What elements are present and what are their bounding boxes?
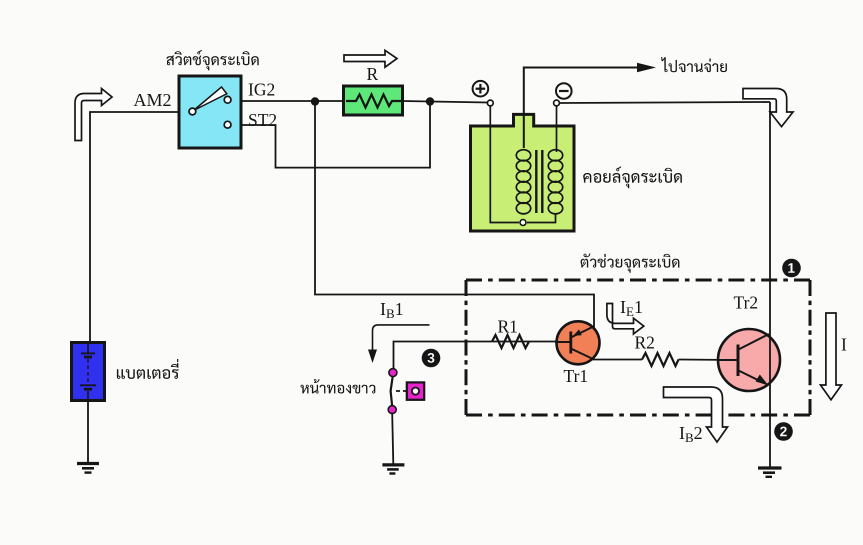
ignition coil body xyxy=(471,114,575,231)
svg-text:IG2: IG2 xyxy=(248,80,275,100)
flow arrow R xyxy=(344,50,397,67)
plus wire terminal xyxy=(487,100,493,106)
plus symbol xyxy=(473,81,489,97)
cam link dashes xyxy=(396,390,407,392)
wire battery to ground xyxy=(87,400,89,463)
wire minus down to secondary xyxy=(556,105,558,152)
terminal IG2 xyxy=(224,96,231,103)
switch lever xyxy=(194,87,227,111)
coil primary winding xyxy=(516,150,530,214)
contact point top xyxy=(389,369,397,377)
terminal ST2 xyxy=(224,121,231,128)
wire IG2 xyxy=(231,100,344,102)
cam centre xyxy=(412,388,419,395)
arrowhead to distributor xyxy=(637,63,656,73)
wire Tr1 emitter to R2 xyxy=(592,359,642,361)
arrow IB1 xyxy=(373,325,430,351)
resistor R1 zigzag xyxy=(492,335,529,348)
wire ST2 bypass xyxy=(231,101,430,168)
svg-text:I: I xyxy=(841,335,847,355)
ground battery xyxy=(77,464,99,473)
label to-distributor (Thai) xyxy=(661,57,727,72)
igniter dash-dot box xyxy=(466,280,810,415)
svg-text:Tr2: Tr2 xyxy=(734,293,759,313)
svg-text:ST2: ST2 xyxy=(248,110,277,130)
coil secondary winding xyxy=(548,150,562,214)
junction dot B xyxy=(426,97,434,105)
marker 3 xyxy=(422,349,441,368)
transistor Tr1 xyxy=(555,321,600,364)
svg-text:R1: R1 xyxy=(498,317,518,337)
battery body xyxy=(72,343,105,401)
battery cells xyxy=(80,344,96,399)
wire minus to right rail xyxy=(560,102,770,103)
cam square xyxy=(407,382,424,399)
svg-text:R2: R2 xyxy=(635,333,655,353)
coil secondary bottom wire xyxy=(527,213,556,223)
wire contact to ground xyxy=(392,413,393,464)
flow arrow IB2 xyxy=(664,387,728,442)
wire R2 to Tr2 base xyxy=(679,359,738,362)
wire battery AM2 xyxy=(90,112,192,343)
label igniter (Thai) xyxy=(581,254,680,273)
flow arrow IE1 xyxy=(607,304,644,335)
flow arrow AM2 xyxy=(75,89,112,141)
wire right rail xyxy=(769,102,771,468)
label ignition-switch (Thai) xyxy=(166,50,258,70)
wire contact points to R1 xyxy=(394,342,571,370)
marker 2 xyxy=(774,422,793,441)
wire junction1 down to Tr1 collector xyxy=(315,101,594,328)
ground contact points xyxy=(382,465,404,474)
resistor R2 zigzag xyxy=(642,353,679,366)
ground Tr2 xyxy=(758,468,782,477)
terminal AM2 xyxy=(189,108,196,115)
label ignition-coil (Thai) xyxy=(583,167,682,189)
minus wire terminal xyxy=(554,100,560,106)
label contact-points (Thai) xyxy=(301,379,376,393)
svg-text:Tr1: Tr1 xyxy=(564,366,589,386)
flow arrow I xyxy=(821,313,842,400)
svg-text:R: R xyxy=(367,64,379,84)
high tension wire to distributor xyxy=(524,68,641,149)
label battery (Thai) xyxy=(117,359,179,379)
marker 1 xyxy=(782,259,801,278)
contact arm xyxy=(391,375,393,407)
coil primary feed wire xyxy=(490,105,519,223)
resistor R box xyxy=(344,86,403,115)
junction dot A xyxy=(311,97,319,105)
coil common node xyxy=(520,220,526,226)
resistor R zigzag xyxy=(346,95,401,108)
coil core xyxy=(536,150,542,213)
transistor Tr2 xyxy=(717,329,780,391)
svg-text:AM2: AM2 xyxy=(134,90,172,110)
wire R to plus terminal xyxy=(402,101,488,103)
minus symbol xyxy=(556,83,572,99)
ignition switch box xyxy=(179,76,241,148)
contact point bottom xyxy=(388,406,396,414)
flow arrow to igniter xyxy=(743,89,793,127)
